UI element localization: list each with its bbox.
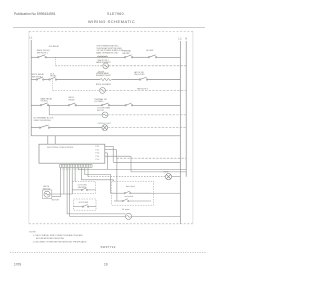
wire bake element to N <box>108 65 186 67</box>
svg-text:DL motor: DL motor <box>122 208 130 211</box>
outer dashed border <box>29 31 193 33</box>
svg-text:Publication No 5995434591: Publication No 5995434591 <box>14 12 56 16</box>
wire right vertical v3 <box>106 153 108 170</box>
dashed box door lock assembly <box>112 181 154 205</box>
svg-text:not locked: not locked <box>125 195 134 198</box>
wire long y162 <box>113 161 180 163</box>
board pin stub right 2 <box>105 149 117 151</box>
svg-text:RELAY: RELAY <box>50 75 57 78</box>
switch conv fan contact <box>68 103 76 106</box>
load oven light lamp <box>165 174 171 180</box>
svg-text:LIMITER: LIMITER <box>122 53 130 55</box>
svg-text:(CLOSED): (CLOSED) <box>94 101 103 103</box>
svg-text:P1-1: P1-1 <box>96 146 100 148</box>
svg-text:SEE NOTE 1: SEE NOTE 1 <box>37 53 48 55</box>
load conv motor <box>102 112 108 118</box>
svg-text:1. CHECK THAT ALL WIRE CONNECT: 1. CHECK THAT ALL WIRE CONNECTIONS ARE T… <box>33 234 84 237</box>
switch thermal rung4 <box>101 103 109 106</box>
wire dashed feed to bake element <box>56 65 103 67</box>
svg-text:19: 19 <box>104 263 108 267</box>
wire rung7 <box>31 135 180 137</box>
wire connector drop 3 <box>67 168 125 214</box>
wire stub to board 1 <box>47 136 49 144</box>
wire conv motor to N <box>108 114 186 116</box>
switch dlb relay contact <box>49 77 57 80</box>
door latch motor box <box>42 190 51 199</box>
board pin stub right 3 <box>105 152 108 154</box>
wire connector drop 1 <box>60 168 62 197</box>
svg-text:SLE7960: SLE7960 <box>107 12 124 16</box>
wire right vertical v4 <box>130 156 132 172</box>
wire right vertical v2 <box>116 150 118 159</box>
svg-text:ELEMENT 800W: ELEMENT 800W <box>96 75 111 77</box>
load broil element <box>100 88 106 94</box>
wire connector drop 6 <box>74 168 76 182</box>
svg-text:RELAY: RELAY <box>69 99 76 102</box>
connector strip hatch <box>60 164 92 167</box>
switch conv relay contact <box>40 103 49 106</box>
svg-text:UNLOCKED: UNLOCKED <box>134 74 145 76</box>
load oven lamp <box>102 125 108 131</box>
wire motor to L2 <box>132 215 181 217</box>
svg-text:DLB RELAY: DLB RELAY <box>49 45 60 48</box>
control board EOC <box>39 144 105 163</box>
wire oven light to L2 <box>172 176 181 178</box>
wire oven lamp to N <box>108 127 187 129</box>
svg-text:1709: 1709 <box>14 263 21 267</box>
svg-text:USED THIS MODEL: USED THIS MODEL <box>34 120 51 122</box>
svg-text:P1-3: P1-3 <box>96 153 100 155</box>
switch bake relay contact <box>38 55 47 58</box>
wire latch feed a <box>50 193 72 195</box>
switch high limit <box>148 55 157 58</box>
svg-text:P1-5: P1-5 <box>96 159 100 161</box>
wire right vertical v1 <box>112 146 114 162</box>
wire stub to board 2 <box>54 136 56 144</box>
wire connector drop 10 <box>87 168 89 177</box>
wire connector drop 2 <box>63 168 65 194</box>
wire dashdot long y158 <box>117 157 187 159</box>
switch latch unlocked <box>139 77 148 80</box>
wire rung4 <box>31 104 40 106</box>
svg-text:WIRING SCHEMATIC: WIRING SCHEMATIC <box>88 19 135 24</box>
wire dotted feed to broil element <box>52 89 99 91</box>
wire vertical to lock row2 <box>116 158 118 201</box>
wire connector drop 8 <box>82 168 114 182</box>
wire rung3 <box>31 79 36 81</box>
footer dotted rule <box>10 252 207 254</box>
dashed box lock switch 2 <box>73 199 96 210</box>
svg-text:MOTOR: MOTOR <box>97 110 105 112</box>
wire long y167.8 <box>78 168 186 170</box>
switch door lock A <box>115 191 180 194</box>
switch rung4 right <box>125 103 133 106</box>
wire L2 bus <box>179 41 181 224</box>
wire branch solid rung4 <box>48 105 50 115</box>
wire connector drop 5 <box>71 168 73 194</box>
wire N bus <box>185 41 187 177</box>
wire dashed to oven light <box>88 176 165 178</box>
wire long y171.9 <box>131 171 186 173</box>
svg-text:P1-2: P1-2 <box>96 149 100 151</box>
svg-text:P1-4: P1-4 <box>96 156 100 158</box>
element inline hidden bake <box>100 79 111 81</box>
svg-text:N: N <box>185 37 187 41</box>
load latch motor <box>44 191 50 197</box>
board pin stub right 1 <box>105 145 113 147</box>
switch door lock B <box>114 199 151 202</box>
wire latch feed b <box>52 196 61 198</box>
dashed box lock switch 1 <box>72 182 95 194</box>
wire branch dotted rung3 <box>51 80 53 91</box>
svg-text:SWFT722: SWFT722 <box>100 245 115 249</box>
svg-text:2. DISCONNECT POWER BEFORE SER: 2. DISCONNECT POWER BEFORE SERVICING THE… <box>33 241 88 244</box>
header rule <box>13 27 205 29</box>
switch lock 1 <box>72 188 95 191</box>
relay coil on rung1 <box>98 56 108 57</box>
wire connector drop 4 <box>70 168 126 217</box>
load bake element <box>103 63 109 69</box>
wire feed to conv motor <box>49 114 102 116</box>
wire rung1 <box>31 56 37 58</box>
wire connector drop 7 <box>77 168 79 170</box>
wire broil element to N <box>105 89 186 91</box>
svg-text:DOOR SW: DOOR SW <box>79 202 88 204</box>
svg-text:HI-LIMIT: HI-LIMIT <box>146 50 154 52</box>
load door lock motor <box>125 213 131 219</box>
svg-text:ON EOC: ON EOC <box>41 101 49 103</box>
wire L1 bus <box>30 40 32 136</box>
switch thermal limiter <box>124 55 132 58</box>
wire rung5 <box>31 127 39 129</box>
switch lock 2 <box>73 205 96 208</box>
svg-text:SEE NOTE 3: SEE NOTE 3 <box>137 88 148 90</box>
svg-text:BAKE OPERATION ONLY: BAKE OPERATION ONLY <box>96 52 119 55</box>
svg-text:BROIL ELEMENT: BROIL ELEMENT <box>96 84 112 86</box>
switch oven light switch <box>39 125 50 128</box>
switch broil relay contact <box>36 77 44 80</box>
wire connector drop 9 <box>85 168 115 194</box>
svg-text:SECURE AFTER ANY SERVICING: SECURE AFTER ANY SERVICING <box>36 237 65 240</box>
svg-text:NOTE:: NOTE: <box>29 232 36 234</box>
svg-text:ELECTRONIC OVEN CONTROL: ELECTRONIC OVEN CONTROL <box>47 147 73 149</box>
board pin stub right 4 <box>105 155 131 157</box>
svg-text:MOTOR: MOTOR <box>52 200 60 202</box>
wire branch dotted from rung1 <box>55 57 57 66</box>
svg-text:door (lock): door (lock) <box>126 185 135 188</box>
